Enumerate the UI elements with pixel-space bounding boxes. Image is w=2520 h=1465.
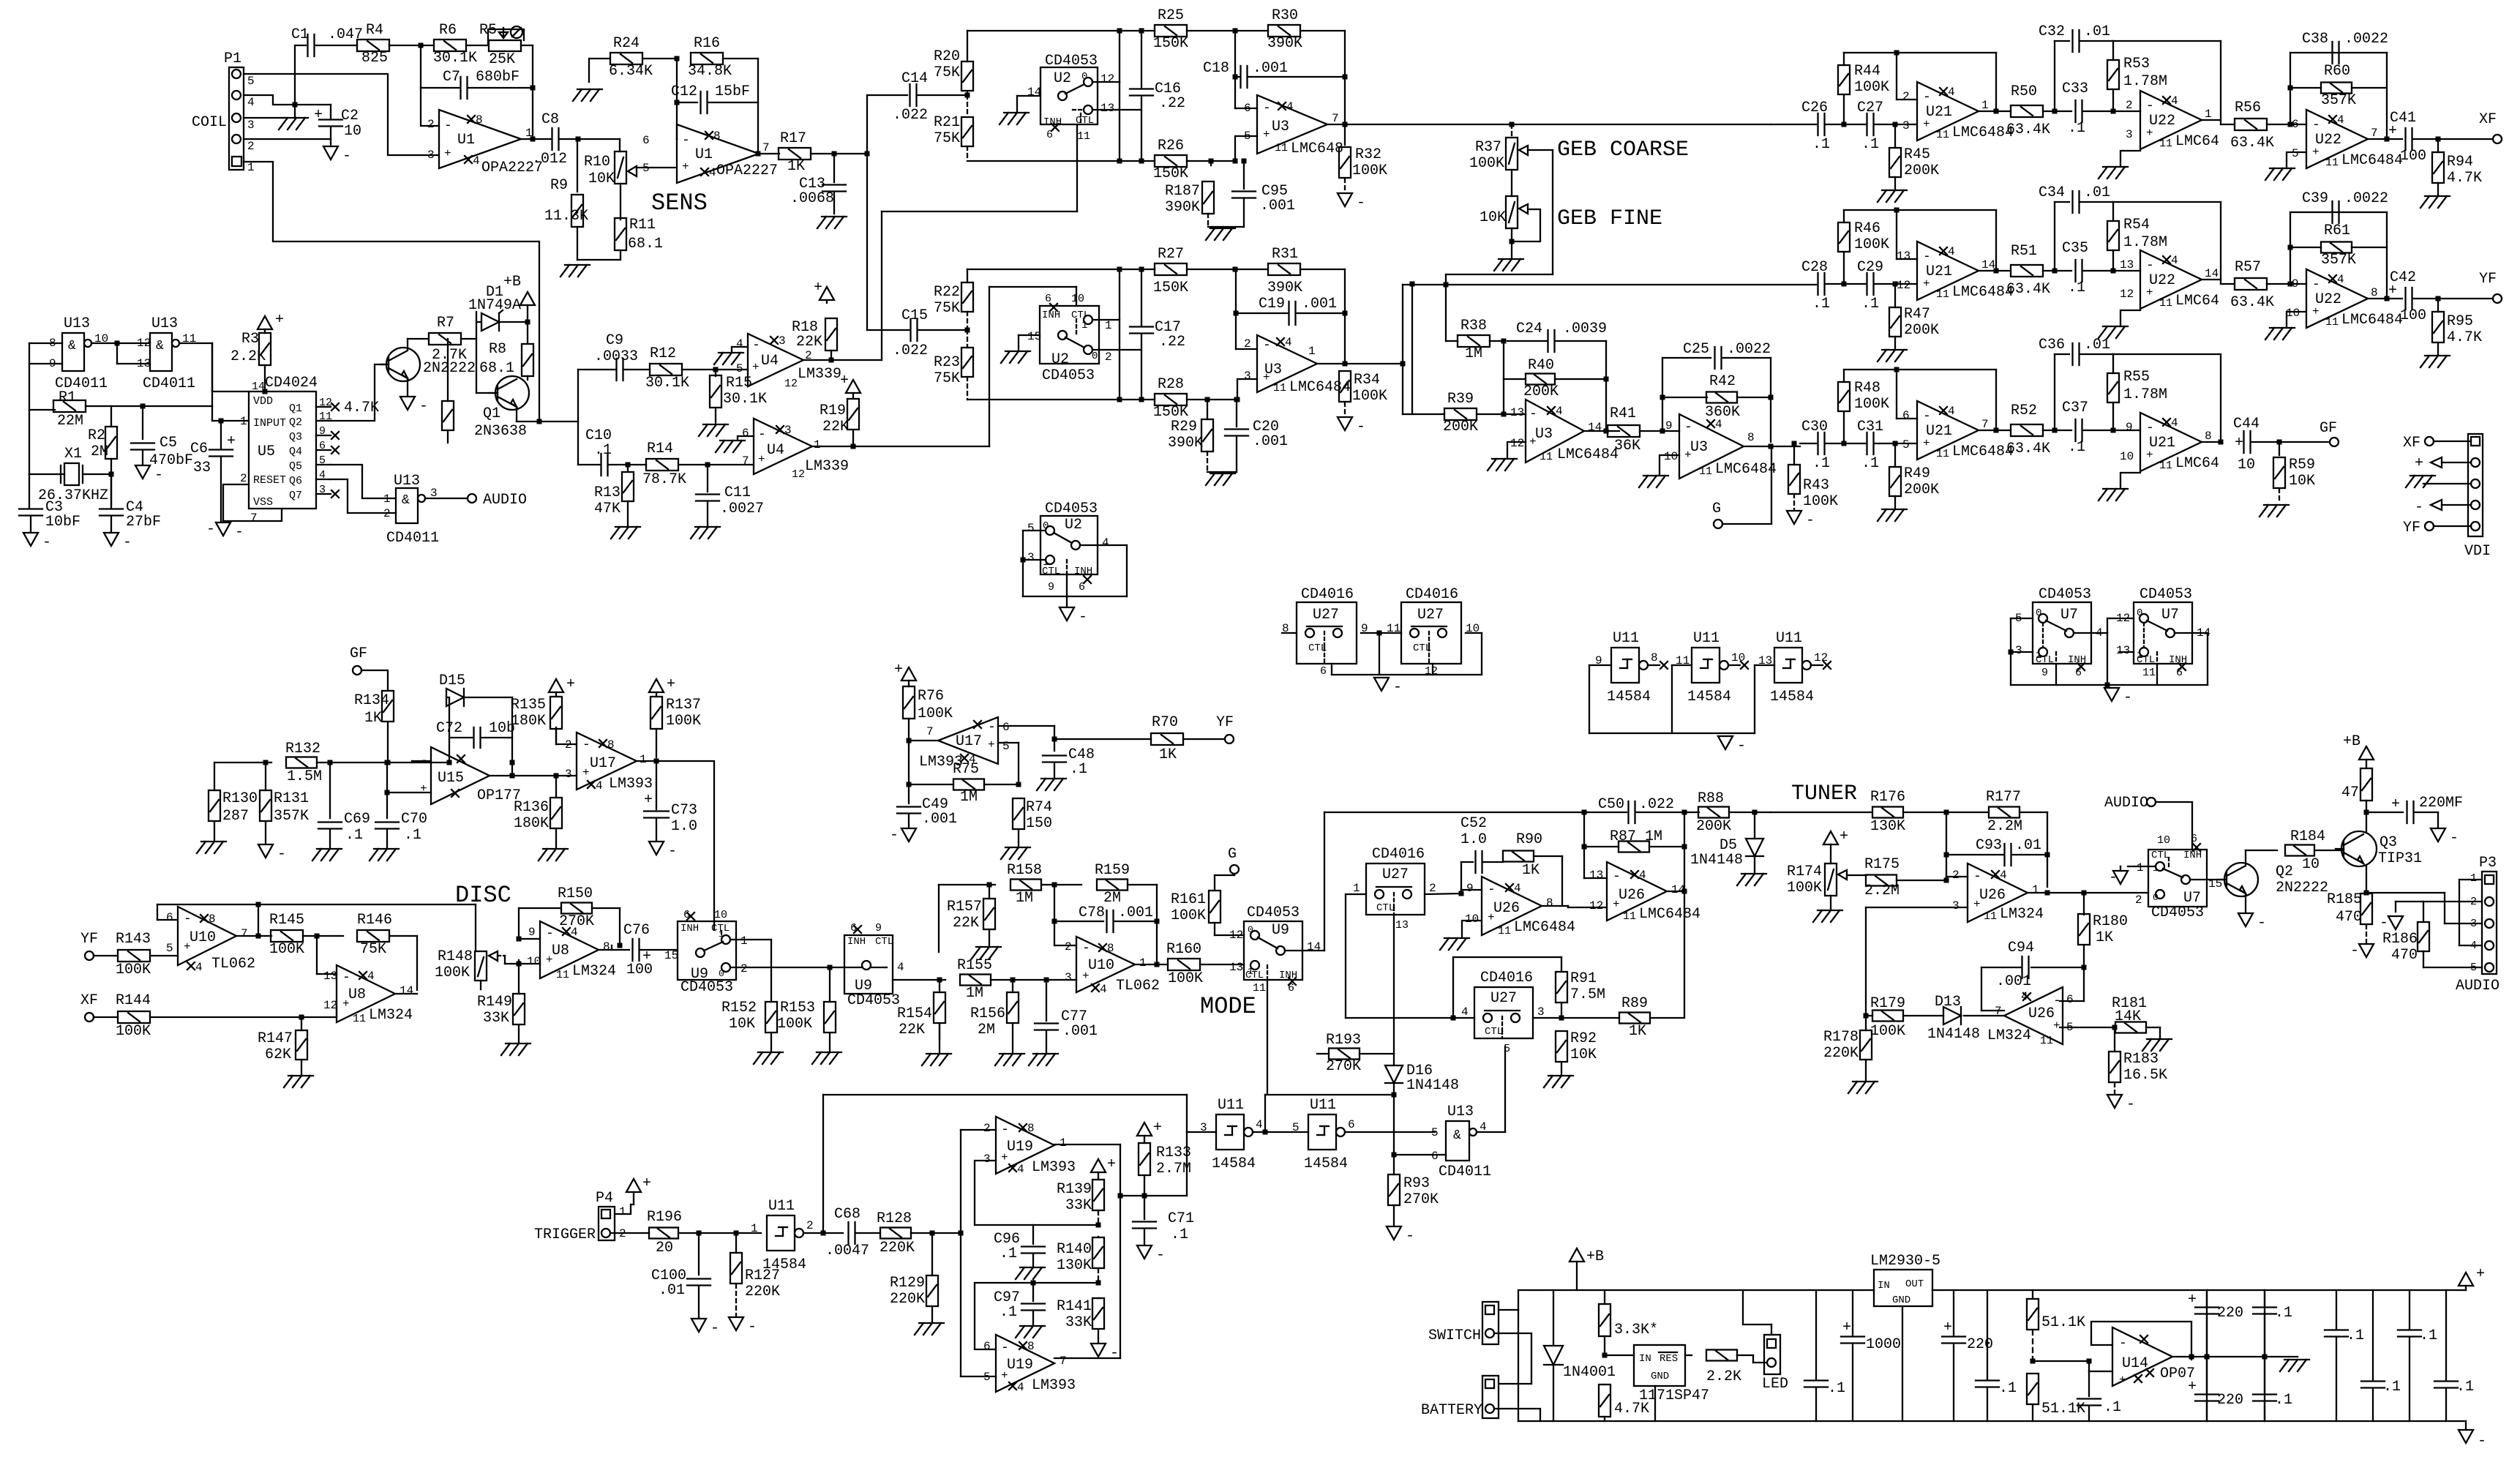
svg-text:R9: R9 [550, 177, 568, 194]
svg-text:14584: 14584 [1607, 689, 1651, 705]
svg-text:SWITCH: SWITCH [1428, 1327, 1481, 1344]
svg-text:10K: 10K [2289, 473, 2315, 490]
svg-text:2.7K: 2.7K [432, 347, 467, 364]
svg-text:CD4016: CD4016 [1480, 970, 1533, 986]
svg-text:68.1: 68.1 [628, 236, 663, 252]
svg-text:U22: U22 [2315, 132, 2341, 149]
svg-text:R17: R17 [780, 130, 806, 147]
svg-text:LM324: LM324 [572, 963, 616, 980]
svg-text:100K: 100K [116, 962, 151, 978]
svg-text:13: 13 [2116, 644, 2130, 657]
svg-text:14584: 14584 [1304, 1155, 1348, 1172]
svg-text:30.1K: 30.1K [645, 375, 689, 391]
svg-text:TUNER: TUNER [1791, 782, 1857, 806]
svg-text:220K: 220K [890, 1291, 925, 1308]
svg-text:.001: .001 [1062, 1023, 1098, 1040]
svg-text:Q3: Q3 [2380, 834, 2397, 851]
svg-text:LM393: LM393 [609, 776, 653, 793]
svg-text:200K: 200K [1443, 419, 1478, 435]
svg-text:CD4011: CD4011 [1439, 1164, 1491, 1180]
svg-text:C38: C38 [2302, 31, 2328, 48]
svg-text:25K: 25K [489, 51, 515, 68]
svg-text:R160: R160 [1166, 941, 1201, 958]
svg-text:.001: .001 [1118, 904, 1153, 921]
svg-text:11: 11 [1699, 465, 1712, 478]
svg-text:5: 5 [1902, 438, 1910, 452]
svg-text:-: - [1263, 101, 1271, 116]
svg-text:6: 6 [983, 1340, 991, 1353]
svg-text:14584: 14584 [1687, 689, 1731, 705]
svg-text:CD4016: CD4016 [1301, 586, 1354, 603]
svg-text:7: 7 [250, 512, 258, 525]
svg-text:3: 3 [1027, 551, 1035, 564]
svg-text:12: 12 [2120, 288, 2134, 301]
svg-text:+B: +B [2343, 733, 2360, 750]
svg-text:4: 4 [1461, 1005, 1469, 1019]
svg-text:+: + [2391, 796, 2400, 813]
svg-text:C11: C11 [724, 484, 751, 501]
svg-text:LMC6484: LMC6484 [1952, 124, 2014, 141]
svg-text:14: 14 [1307, 940, 1321, 953]
svg-text:R95: R95 [2447, 313, 2473, 330]
svg-text:4: 4 [1017, 1163, 1024, 1176]
svg-text:220: 220 [2217, 1392, 2243, 1409]
svg-text:6: 6 [1902, 409, 1910, 422]
svg-text:22M: 22M [57, 413, 83, 430]
svg-text:10K: 10K [1570, 1046, 1597, 1063]
svg-text:7: 7 [1332, 112, 1339, 125]
svg-text:7: 7 [2371, 127, 2378, 140]
svg-text:63.4K: 63.4K [2006, 121, 2050, 138]
svg-text:8: 8 [476, 113, 483, 127]
svg-text:4: 4 [195, 961, 203, 974]
svg-text:11: 11 [1936, 129, 1949, 141]
svg-text:CD4053: CD4053 [1045, 53, 1098, 70]
svg-text:10: 10 [1071, 293, 1084, 305]
svg-text:TL062: TL062 [211, 956, 255, 973]
svg-text:100K: 100K [918, 705, 953, 722]
svg-text:180K: 180K [511, 713, 546, 730]
svg-text:1M: 1M [960, 789, 978, 806]
svg-text:R178: R178 [1823, 1029, 1859, 1046]
svg-text:.0047: .0047 [825, 1243, 869, 1259]
svg-text:+: + [752, 361, 760, 374]
svg-text:C14: C14 [901, 70, 928, 87]
svg-text:CTL: CTL [2036, 654, 2054, 666]
svg-text:33K: 33K [1065, 1314, 1092, 1331]
svg-text:R29: R29 [1171, 419, 1197, 435]
svg-text:12: 12 [1510, 437, 1524, 450]
svg-text:34.8K: 34.8K [688, 63, 732, 80]
svg-text:27bF: 27bF [126, 514, 161, 531]
svg-text:47: 47 [2341, 784, 2359, 801]
svg-text:12: 12 [792, 468, 805, 481]
svg-text:8: 8 [1747, 431, 1755, 444]
svg-text:-: - [1406, 1228, 1414, 1245]
svg-text:.01: .01 [2084, 23, 2110, 40]
svg-text:3: 3 [247, 119, 255, 132]
svg-text:R186: R186 [2382, 931, 2418, 948]
svg-text:+: + [275, 312, 284, 329]
svg-text:+: + [667, 676, 675, 693]
svg-text:R152: R152 [721, 1000, 757, 1016]
svg-text:R153: R153 [780, 1000, 815, 1016]
svg-text:R60: R60 [2324, 63, 2350, 80]
svg-text:.1: .1 [2275, 1305, 2292, 1322]
svg-text:R27: R27 [1158, 246, 1184, 263]
svg-text:CTL: CTL [1042, 566, 1060, 577]
svg-text:R47: R47 [1904, 306, 1930, 323]
svg-text:4: 4 [2337, 113, 2344, 127]
svg-text:LM324: LM324 [2000, 906, 2044, 923]
svg-text:C12: C12 [671, 83, 697, 100]
svg-text:C24: C24 [1516, 321, 1542, 337]
svg-text:.1: .1 [1812, 296, 1830, 312]
svg-text:11: 11 [1936, 288, 1949, 301]
svg-text:4: 4 [1286, 100, 1294, 113]
svg-text:.01: .01 [659, 1282, 685, 1299]
svg-text:.1: .1 [2068, 439, 2085, 456]
svg-text:11: 11 [2159, 138, 2172, 150]
svg-text:R25: R25 [1158, 7, 1184, 24]
svg-text:.1: .1 [2068, 120, 2085, 137]
svg-text:VDI: VDI [2464, 543, 2491, 560]
svg-text:220: 220 [2217, 1305, 2243, 1322]
svg-text:YF: YF [80, 931, 98, 948]
svg-text:1M: 1M [1016, 890, 1033, 907]
svg-text:U17: U17 [590, 755, 616, 772]
svg-text:-: - [1001, 1123, 1009, 1137]
svg-text:C7: C7 [443, 69, 460, 86]
svg-text:.1: .1 [1861, 455, 1879, 472]
svg-text:CD4011: CD4011 [143, 375, 195, 392]
svg-text:13: 13 [1589, 869, 1603, 882]
svg-text:1: 1 [2032, 883, 2039, 896]
svg-text:.1: .1 [1000, 1245, 1017, 1262]
svg-text:C69: C69 [344, 811, 370, 828]
svg-text:-: - [2109, 869, 2118, 886]
svg-text:Q1: Q1 [483, 405, 500, 422]
svg-text:51.1K: 51.1K [2041, 1401, 2085, 1417]
svg-text:R22: R22 [934, 284, 960, 301]
svg-text:10: 10 [1465, 913, 1479, 926]
svg-text:R40: R40 [1528, 357, 1554, 374]
svg-text:0: 0 [2036, 607, 2041, 619]
svg-text:2: 2 [2126, 99, 2133, 112]
svg-text:2: 2 [1952, 869, 1960, 882]
svg-text:.1: .1 [1000, 1304, 1017, 1321]
svg-text:BATTERY: BATTERY [1421, 1402, 1482, 1419]
svg-text:1: 1 [1981, 99, 1989, 112]
svg-text:+: + [814, 280, 822, 296]
svg-text:0: 0 [1081, 71, 1087, 83]
svg-text:CD4053: CD4053 [680, 979, 733, 996]
svg-text:1: 1 [1081, 320, 1087, 331]
svg-text:10bF: 10bF [45, 514, 80, 531]
svg-text:4: 4 [897, 961, 904, 974]
svg-text:U7: U7 [2060, 607, 2078, 623]
svg-text:&: & [68, 339, 76, 353]
svg-text:-: - [890, 827, 899, 844]
svg-text:R176: R176 [1870, 789, 1905, 806]
svg-text:R128: R128 [877, 1210, 912, 1227]
svg-text:130K: 130K [1057, 1257, 1092, 1274]
svg-text:7.5M: 7.5M [1570, 986, 1605, 1003]
svg-text:7: 7 [762, 141, 770, 154]
svg-text:12: 12 [1100, 72, 1114, 86]
svg-text:U10: U10 [1088, 957, 1114, 974]
svg-text:200K: 200K [1904, 162, 1939, 179]
svg-text:14: 14 [400, 984, 413, 997]
svg-text:11: 11 [2325, 316, 2339, 329]
svg-text:+: + [1107, 1156, 1116, 1173]
svg-text:U17: U17 [956, 733, 982, 750]
svg-text:1N4148: 1N4148 [1690, 852, 1743, 869]
svg-text:INH: INH [680, 923, 699, 934]
svg-text:1.78M: 1.78M [2123, 386, 2167, 403]
svg-text:390K: 390K [1267, 35, 1302, 52]
svg-text:4: 4 [1285, 336, 1292, 349]
svg-text:R49: R49 [1904, 465, 1930, 482]
svg-text:3.3K*: 3.3K* [1614, 1322, 1658, 1338]
svg-text:U8: U8 [552, 943, 569, 959]
svg-text:47K: 47K [594, 501, 620, 517]
svg-text:R184: R184 [2290, 828, 2325, 845]
svg-text:-: - [1806, 512, 1815, 529]
svg-text:2.2M: 2.2M [1864, 883, 1900, 899]
svg-text:U27: U27 [1417, 607, 1444, 623]
svg-text:1K: 1K [1522, 862, 1540, 879]
svg-text:C34: C34 [2039, 184, 2065, 201]
svg-text:-: - [2450, 830, 2459, 847]
svg-text:+: + [758, 453, 765, 466]
svg-text:-: - [184, 912, 192, 926]
svg-text:200K: 200K [1696, 818, 1731, 835]
svg-text:.0027: .0027 [720, 501, 764, 517]
svg-text:11: 11 [2159, 460, 2172, 472]
svg-text:R45: R45 [1904, 146, 1930, 163]
svg-text:0: 0 [719, 968, 724, 979]
svg-text:LM2930-5: LM2930-5 [1870, 1253, 1940, 1270]
svg-text:75K: 75K [360, 941, 386, 958]
svg-text:.1: .1 [1861, 296, 1879, 312]
svg-text:-: - [682, 133, 690, 148]
svg-text:2: 2 [247, 140, 255, 153]
svg-text:100K: 100K [269, 941, 304, 958]
svg-text:U26: U26 [1493, 900, 1520, 917]
svg-text:R148: R148 [438, 948, 473, 965]
svg-text:+: + [314, 107, 323, 124]
svg-text:360K: 360K [1705, 404, 1740, 421]
svg-text:CTL: CTL [875, 936, 893, 948]
svg-text:1: 1 [640, 753, 647, 766]
svg-text:1: 1 [751, 1222, 758, 1235]
svg-text:3: 3 [1065, 971, 1072, 984]
svg-text:R56: R56 [2235, 100, 2261, 116]
svg-text:10: 10 [1731, 651, 1745, 664]
svg-text:U26: U26 [1619, 887, 1645, 904]
svg-text:U19: U19 [1007, 1357, 1033, 1374]
svg-text:+: + [2119, 1374, 2126, 1387]
svg-text:10K: 10K [729, 1016, 755, 1033]
svg-text:U27: U27 [1382, 866, 1409, 883]
svg-text:P4: P4 [596, 1190, 613, 1207]
svg-text:C32: C32 [2039, 23, 2065, 40]
svg-text:2: 2 [1105, 351, 1112, 364]
svg-text:-: - [1263, 338, 1271, 353]
svg-text:INH: INH [1043, 116, 1062, 128]
svg-text:33K: 33K [483, 1010, 509, 1027]
svg-text:13: 13 [1897, 250, 1910, 263]
svg-text:R44: R44 [1854, 63, 1880, 80]
svg-text:-: - [1923, 250, 1931, 264]
svg-text:3: 3 [2015, 644, 2022, 657]
svg-text:+: + [227, 433, 236, 450]
svg-text:IN: IN [1639, 1353, 1651, 1365]
svg-text:YF: YF [1216, 714, 1234, 731]
svg-text:200K: 200K [1904, 482, 1939, 498]
svg-text:9: 9 [1048, 581, 1054, 593]
svg-text:+: + [420, 782, 427, 795]
svg-text:C70: C70 [401, 811, 427, 828]
svg-text:11: 11 [353, 1013, 366, 1025]
svg-text:-: - [2478, 1433, 2486, 1450]
svg-text:10K: 10K [588, 171, 615, 187]
svg-text:LMC6484: LMC6484 [1289, 379, 1351, 396]
svg-text:.01: .01 [2084, 337, 2110, 353]
svg-text:TIP31: TIP31 [2378, 850, 2422, 867]
svg-text:10: 10 [1664, 450, 1678, 463]
svg-text:220K: 220K [745, 1284, 780, 1300]
svg-text:14584: 14584 [762, 1256, 806, 1273]
svg-text:R16: R16 [694, 35, 720, 52]
svg-text:13: 13 [1100, 102, 1114, 115]
svg-text:VSS: VSS [253, 496, 273, 509]
svg-text:U22: U22 [2149, 272, 2175, 289]
svg-text:G: G [1228, 846, 1237, 863]
svg-text:-: - [2146, 99, 2154, 113]
svg-text:12: 12 [784, 378, 798, 390]
svg-text:2: 2 [806, 1219, 814, 1232]
svg-text:LMC6484: LMC6484 [1639, 906, 1700, 923]
svg-text:R4: R4 [366, 22, 383, 39]
svg-text:LMC6484: LMC6484 [1952, 443, 2014, 460]
svg-text:4.7K: 4.7K [2447, 329, 2482, 346]
svg-text:75K: 75K [934, 370, 960, 387]
svg-text:CTL: CTL [1245, 970, 1264, 981]
svg-text:22K: 22K [796, 334, 822, 351]
svg-text:R6: R6 [439, 22, 457, 39]
svg-text:CTL: CTL [1485, 1026, 1503, 1038]
svg-text:+: + [988, 738, 995, 752]
svg-text:+: + [644, 792, 653, 809]
svg-text:1171SP47: 1171SP47 [1639, 1387, 1709, 1404]
svg-text:+: + [2188, 1379, 2197, 1395]
svg-text:R28: R28 [1158, 376, 1184, 393]
svg-text:R91: R91 [1570, 970, 1597, 987]
svg-text:.1: .1 [1812, 455, 1830, 472]
svg-text:11: 11 [1498, 925, 1511, 937]
svg-text:1M: 1M [966, 985, 983, 1002]
svg-text:2: 2 [427, 118, 435, 131]
svg-text:150K: 150K [1153, 35, 1188, 52]
svg-text:C94: C94 [2008, 940, 2034, 956]
svg-text:LMC6484: LMC6484 [1715, 461, 1777, 478]
svg-text:R131: R131 [274, 790, 309, 807]
svg-text:4: 4 [571, 926, 578, 939]
svg-text:8: 8 [1107, 942, 1114, 955]
svg-text:LM324: LM324 [1987, 1027, 2031, 1044]
svg-text:8: 8 [607, 738, 615, 752]
svg-text:CD4053: CD4053 [2151, 904, 2204, 921]
svg-text:Q5: Q5 [289, 460, 302, 473]
svg-text:C28: C28 [1801, 259, 1828, 276]
svg-text:U1: U1 [457, 132, 475, 149]
svg-text:100K: 100K [1168, 970, 1203, 987]
svg-text:R74: R74 [1026, 799, 1052, 816]
svg-text:180K: 180K [514, 815, 549, 832]
svg-text:3: 3 [1244, 370, 1251, 383]
svg-text:4: 4 [736, 337, 743, 351]
svg-text:2M: 2M [91, 443, 108, 460]
svg-text:-: - [668, 843, 677, 860]
svg-text:U26: U26 [2028, 1005, 2055, 1022]
svg-text:+: + [2235, 435, 2243, 452]
svg-text:8: 8 [2205, 430, 2212, 443]
svg-text:G: G [1712, 501, 1721, 517]
svg-text:-: - [2257, 915, 2266, 932]
svg-text:10: 10 [2238, 457, 2255, 473]
svg-text:+: + [642, 1175, 651, 1192]
svg-text:1: 1 [814, 438, 821, 452]
svg-text:U4: U4 [767, 442, 784, 459]
svg-text:-: - [2123, 689, 2132, 706]
svg-text:R180: R180 [2093, 913, 2128, 930]
svg-text:.1: .1 [2347, 1327, 2364, 1344]
svg-text:1.0: 1.0 [1460, 831, 1487, 848]
svg-text:+: + [1943, 1319, 1952, 1336]
svg-text:R39: R39 [1447, 391, 1474, 408]
svg-text:&: & [156, 339, 164, 353]
svg-text:&: & [1453, 1128, 1461, 1143]
svg-text:R139: R139 [1057, 1181, 1092, 1198]
svg-text:C44: C44 [2233, 416, 2260, 432]
svg-text:13: 13 [1395, 919, 1409, 932]
svg-text:VDD: VDD [253, 395, 273, 408]
svg-text:U22: U22 [2149, 113, 2175, 130]
svg-text:100K: 100K [1352, 388, 1387, 405]
svg-text:150K: 150K [1153, 165, 1188, 182]
svg-text:R155: R155 [957, 957, 992, 974]
svg-text:R32: R32 [1355, 146, 1381, 163]
svg-text:U19: U19 [1007, 1139, 1033, 1155]
svg-text:R11: R11 [629, 217, 656, 233]
svg-text:1: 1 [1139, 956, 1147, 970]
svg-text:R92: R92 [1570, 1030, 1597, 1047]
svg-text:U13: U13 [151, 315, 178, 332]
svg-text:1M: 1M [1465, 345, 1482, 362]
svg-text:13: 13 [323, 970, 337, 983]
svg-text:5: 5 [642, 162, 650, 175]
svg-text:R88: R88 [1698, 790, 1724, 807]
svg-text:LMC64: LMC64 [2175, 293, 2219, 310]
svg-text:U27: U27 [1313, 607, 1339, 623]
svg-text:U13: U13 [1447, 1104, 1474, 1120]
svg-text:.22: .22 [1159, 334, 1185, 351]
svg-text:LMC64: LMC64 [2175, 133, 2219, 150]
svg-text:33: 33 [193, 460, 211, 476]
svg-text:9: 9 [875, 922, 882, 934]
